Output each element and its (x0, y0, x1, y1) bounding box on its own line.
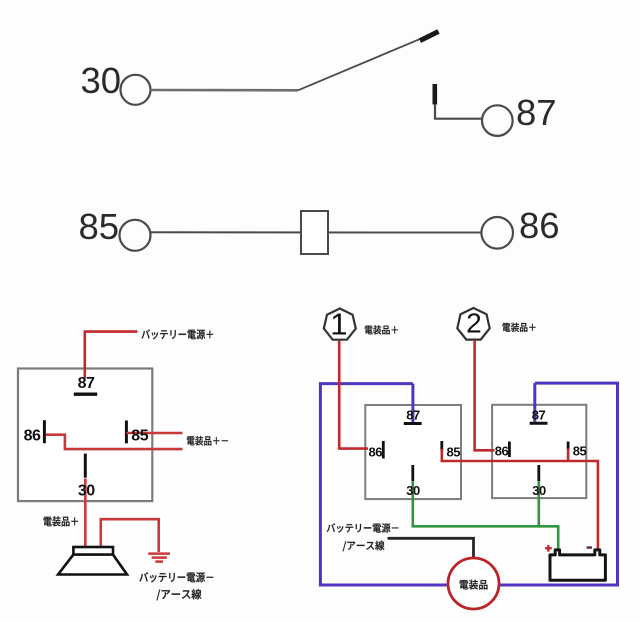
U1 pin 87 contact bar (74, 393, 97, 396)
wire U2 pin 85 to battery - (red) (442, 449, 598, 549)
svg-text:85: 85 (573, 444, 587, 459)
svg-text:86: 86 (519, 205, 560, 246)
wire battery+ to pin 87 (red) (85, 332, 138, 378)
wire U3 pin 30 join (green) (537, 482, 540, 528)
U2 pin 87 contact bar (404, 422, 422, 425)
svg-text:30: 30 (78, 482, 95, 499)
svg-text:85: 85 (79, 206, 120, 247)
wire node2 to U3 pin 86 (red) (475, 340, 495, 450)
node 1 (heptagon) (324, 307, 356, 342)
svg-text:1: 1 (330, 307, 347, 342)
svg-text:87: 87 (78, 375, 95, 392)
relay U1 body (18, 369, 152, 502)
svg-text:86: 86 (24, 428, 41, 445)
svg-text:87: 87 (516, 92, 557, 133)
wire pin 30 to speaker (red) (84, 479, 87, 548)
label device (電装品) in circle (460, 580, 488, 590)
label battery power + (バッテリー電源+) (141, 329, 213, 339)
svg-text:86: 86 (495, 444, 509, 459)
battery + polarity label (545, 545, 552, 552)
blue harness loop (320, 383, 617, 585)
svg-text:87: 87 (532, 407, 546, 422)
ground symbol (red) (148, 554, 170, 562)
U2 pin 86 contact bar (382, 441, 385, 459)
blue stub to U3 pin 87 (533, 383, 536, 422)
U2 pin 85 contact bar (440, 441, 443, 451)
label device + for node 2 (電装品+) (503, 323, 536, 332)
speaker (horn) (58, 547, 127, 575)
battery - polarity label (587, 546, 592, 548)
svg-text:30: 30 (406, 483, 420, 498)
svg-text:86: 86 (369, 444, 383, 459)
blue stub to U2 pin 87 (411, 384, 414, 422)
coil (relay winding) (301, 211, 328, 254)
svg-text:30: 30 (532, 483, 546, 498)
label ground wire (/アース線) (343, 541, 385, 552)
U3 pin 87 contact bar (530, 422, 548, 425)
U3 pin 85 contact bar (567, 442, 570, 450)
wire pin 86 to device (red) (46, 435, 183, 449)
wire U3 pin 85 drop (red) (567, 449, 570, 462)
battery B1 (550, 550, 605, 580)
wire speaker to ground (red) (101, 519, 159, 552)
U3 pin 86 contact bar (508, 442, 511, 458)
label device + for node 1 (電装品+) (365, 325, 398, 334)
label battery power - (バッテリー電源−) (327, 523, 399, 532)
wire node1 to U2 pin 86 (red) (339, 341, 368, 449)
U1 pin 30 contact bar (84, 454, 87, 478)
terminal 87 (482, 105, 513, 136)
device circle (電装品) (448, 558, 499, 609)
label device + (電装品+) (44, 516, 78, 526)
U2 pin 30 contact bar (411, 465, 414, 481)
wire 30 to switch pivot (151, 89, 299, 92)
svg-text:87: 87 (406, 408, 420, 423)
terminal 30 (121, 75, 151, 105)
switch arm (movable contact) (298, 32, 439, 91)
switch fixed contact (87 side) (432, 84, 437, 105)
label device +/- (電装品+−) (187, 436, 228, 446)
relay U2 body (365, 405, 461, 499)
svg-text:30: 30 (81, 60, 122, 101)
wire contact to terminal 87 (435, 104, 482, 119)
terminal 85 (120, 220, 151, 251)
svg-text:2: 2 (466, 308, 482, 339)
terminal 86 (481, 217, 513, 249)
U1 pin 86 contact bar (43, 420, 46, 443)
wire pin 85 to device (red) (126, 432, 182, 435)
node 2 (heptagon) (457, 308, 489, 340)
relay U3 body (492, 405, 586, 498)
U3 pin 30 contact bar (537, 465, 540, 481)
U1 pin 85 contact bar (125, 421, 128, 444)
wire harness to device (black) (388, 538, 474, 560)
svg-text:85: 85 (447, 444, 461, 459)
svg-text:85: 85 (131, 428, 148, 445)
label battery power - (バッテリー電源−) (139, 572, 213, 582)
label ground wire (/アース線) (157, 589, 202, 600)
wire U2 pin 30 to battery + (green) (413, 482, 558, 549)
wire 85 to 86 through coil (151, 231, 482, 233)
